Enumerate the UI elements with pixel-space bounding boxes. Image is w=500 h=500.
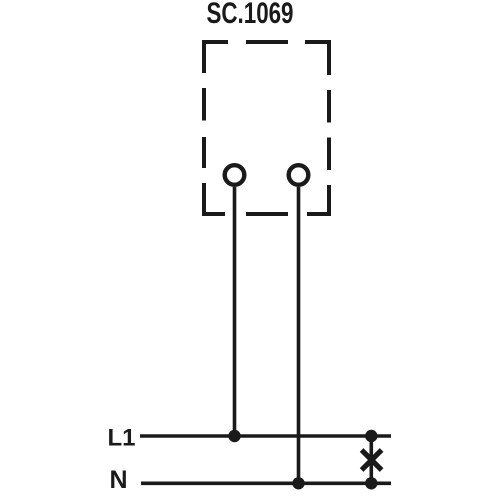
svg-text:L1: L1 (108, 425, 136, 452)
svg-text:SC.1069: SC.1069 (207, 0, 294, 30)
svg-text:N: N (110, 466, 128, 494)
